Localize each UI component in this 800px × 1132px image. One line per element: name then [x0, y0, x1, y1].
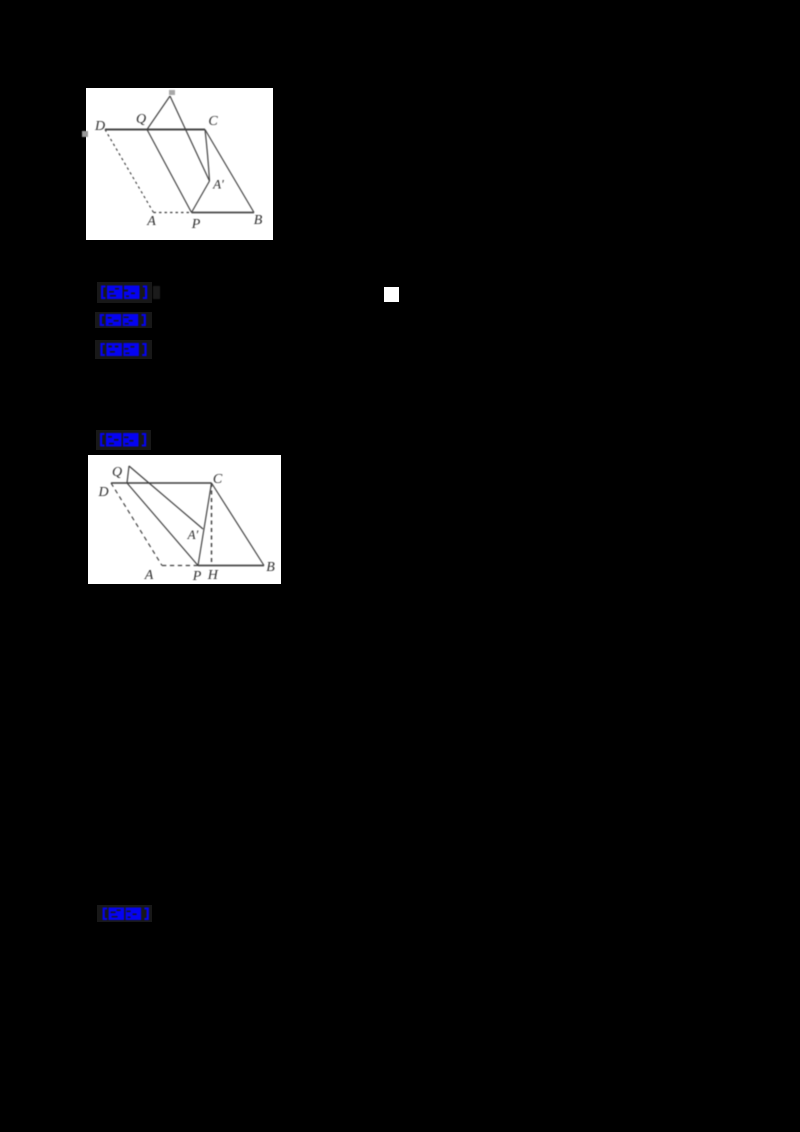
- wire C to B: [205, 130, 254, 213]
- svg-text:A: A: [144, 568, 154, 583]
- wire A to P dashed: [154, 212, 192, 214]
- wire apex D' to A': [170, 96, 210, 181]
- white square bullet: [384, 287, 399, 302]
- wire C to H dashed: [211, 483, 213, 566]
- svg-text:H: H: [207, 568, 219, 583]
- smudge at panel1 left edge: [82, 131, 88, 137]
- wire C to P: [198, 483, 212, 566]
- svg-text:C: C: [213, 472, 223, 487]
- wire C to A': [205, 130, 210, 182]
- svg-text:Q: Q: [112, 465, 122, 480]
- svg-text:Q: Q: [136, 112, 146, 127]
- label 考点 (blurred blue tag): [97, 282, 152, 303]
- wire fold line Q to P: [127, 483, 198, 566]
- wire D to A dashed: [105, 130, 154, 213]
- svg-text:A′: A′: [187, 527, 199, 542]
- svg-text:C: C: [208, 114, 218, 129]
- wire A to P dashed: [162, 565, 198, 567]
- wire P to B (bottom edge): [192, 212, 255, 214]
- wire D to A dashed: [111, 483, 162, 566]
- wire apex D' to Q: [127, 466, 129, 483]
- label 专题 (blurred blue tag): [95, 312, 152, 328]
- svg-text:D: D: [97, 485, 108, 500]
- label 点评 (blurred blue tag): [97, 905, 152, 922]
- wire C to B: [212, 483, 265, 566]
- svg-text:P: P: [191, 217, 201, 232]
- smudge at apex top: [169, 90, 175, 95]
- wire DC (top edge D to C): [111, 482, 212, 484]
- panel figure 1: [86, 88, 273, 240]
- label 解答 (blurred blue tag): [96, 430, 151, 450]
- wire P to B (bottom edge): [198, 565, 264, 567]
- svg-text:P: P: [192, 569, 202, 584]
- wire apex D' to A': [129, 466, 203, 529]
- wire A' to P: [192, 181, 210, 213]
- wire apex D' to Q: [147, 96, 170, 130]
- svg-text:A′: A′: [212, 177, 224, 192]
- wire DC (top edge D to C): [105, 129, 205, 131]
- svg-text:D: D: [94, 119, 105, 134]
- svg-text:B: B: [266, 560, 275, 575]
- svg-text:B: B: [254, 213, 263, 228]
- label 分析 (blurred blue tag): [95, 340, 152, 359]
- svg-text:A: A: [146, 214, 156, 229]
- panel figure 2: [88, 455, 281, 584]
- wire fold line Q to P: [147, 130, 192, 213]
- faint grey text after 考点: [153, 286, 160, 299]
